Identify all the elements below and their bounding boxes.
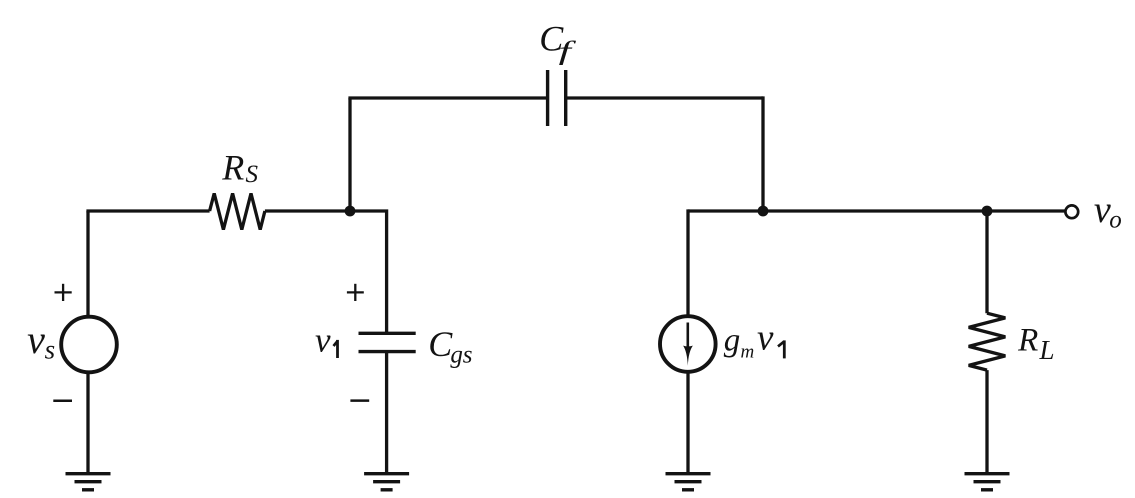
output terminal vo open circle [1065, 205, 1078, 218]
label plus sign of v1 [347, 284, 364, 301]
wire RS to Cgs branch through node A [265, 211, 387, 333]
wire right bus [688, 209, 1065, 212]
svg-text:L: L [1039, 335, 1055, 365]
voltage source vs circle [61, 317, 117, 373]
wire left horizontal to RS [86, 209, 209, 212]
label v1 [315, 320, 339, 359]
capacitor Cf [548, 70, 566, 126]
wire current source to ground [686, 372, 689, 475]
ground of current source branch [666, 474, 711, 490]
label RS [221, 147, 258, 188]
capacitor Cgs [359, 333, 416, 351]
svg-text:f: f [559, 37, 577, 66]
ground of Cgs branch [364, 474, 409, 490]
label minus sign of v1 [350, 399, 369, 402]
wire RL to ground [985, 370, 988, 475]
svg-text:s: s [45, 335, 56, 365]
wire vs to ground [86, 372, 89, 475]
wire RL branch top [985, 211, 988, 313]
ground of RL branch [965, 474, 1010, 490]
wire left vertical from RS level down to vs source [86, 211, 89, 317]
svg-text:v: v [315, 320, 331, 359]
wire top rail left [348, 96, 547, 99]
svg-text:o: o [1109, 207, 1122, 234]
node C junction dot [982, 206, 993, 217]
wire current source branch top [686, 209, 689, 316]
wire top rail right [566, 96, 763, 99]
resistor RL [969, 313, 1006, 370]
svg-text:g: g [450, 342, 463, 369]
node A junction dot [345, 206, 356, 217]
svg-text:S: S [246, 161, 259, 188]
ground of vs branch [66, 474, 111, 490]
label Cf [539, 19, 577, 66]
wire riser node A up to top rail [348, 98, 351, 213]
label gmv1 [724, 318, 786, 363]
label RL [1017, 323, 1054, 365]
svg-text:v: v [27, 317, 45, 362]
label minus sign of vs [53, 399, 72, 402]
svg-text:R: R [1017, 323, 1038, 359]
label vo [1094, 189, 1122, 234]
svg-text:m: m [741, 341, 755, 362]
label vs [27, 317, 55, 365]
current source gmv1 circle [660, 316, 716, 372]
resistor RS [210, 193, 265, 229]
svg-text:g: g [724, 323, 741, 359]
current source arrow [683, 323, 693, 366]
svg-text:R: R [221, 147, 244, 187]
node B junction dot [758, 206, 769, 217]
label Cgs [428, 324, 472, 369]
wire riser down to node B [761, 96, 764, 211]
svg-text:s: s [463, 342, 473, 369]
wire Cgs to ground [385, 352, 388, 475]
svg-text:v: v [757, 318, 774, 359]
label plus sign of vs [55, 284, 72, 301]
